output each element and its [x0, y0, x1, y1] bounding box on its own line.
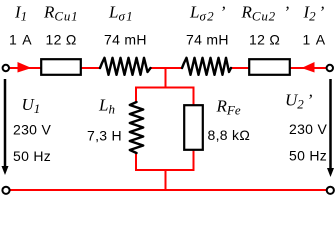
svg-text:I1: I1 [14, 3, 27, 24]
svg-text:Lσ1: Lσ1 [108, 3, 134, 24]
svg-text:U2’: U2’ [285, 91, 313, 112]
svg-text:U1: U1 [22, 95, 41, 116]
svg-text:12 Ω: 12 Ω [249, 32, 280, 48]
svg-text:74 mH: 74 mH [186, 32, 229, 48]
svg-text:50 Hz: 50 Hz [13, 148, 51, 164]
svg-text:7,3 H: 7,3 H [87, 128, 122, 144]
svg-text:8,8 kΩ: 8,8 kΩ [208, 127, 251, 143]
svg-text:1 A: 1 A [9, 32, 32, 48]
svg-text:230 V: 230 V [289, 121, 327, 137]
svg-text:RCu1: RCu1 [43, 3, 78, 24]
svg-text:74 mH: 74 mH [104, 32, 147, 48]
svg-text:12 Ω: 12 Ω [46, 32, 77, 48]
svg-text:Lh: Lh [98, 96, 115, 117]
svg-text:RFe: RFe [216, 97, 241, 118]
svg-text:230 V: 230 V [13, 122, 51, 138]
svg-text:50 Hz: 50 Hz [289, 148, 327, 164]
svg-text:I2’: I2’ [303, 3, 325, 24]
svg-text:RCu2’: RCu2’ [241, 3, 290, 24]
svg-text:Lσ2’: Lσ2’ [189, 3, 226, 24]
svg-text:1 A: 1 A [303, 32, 326, 48]
